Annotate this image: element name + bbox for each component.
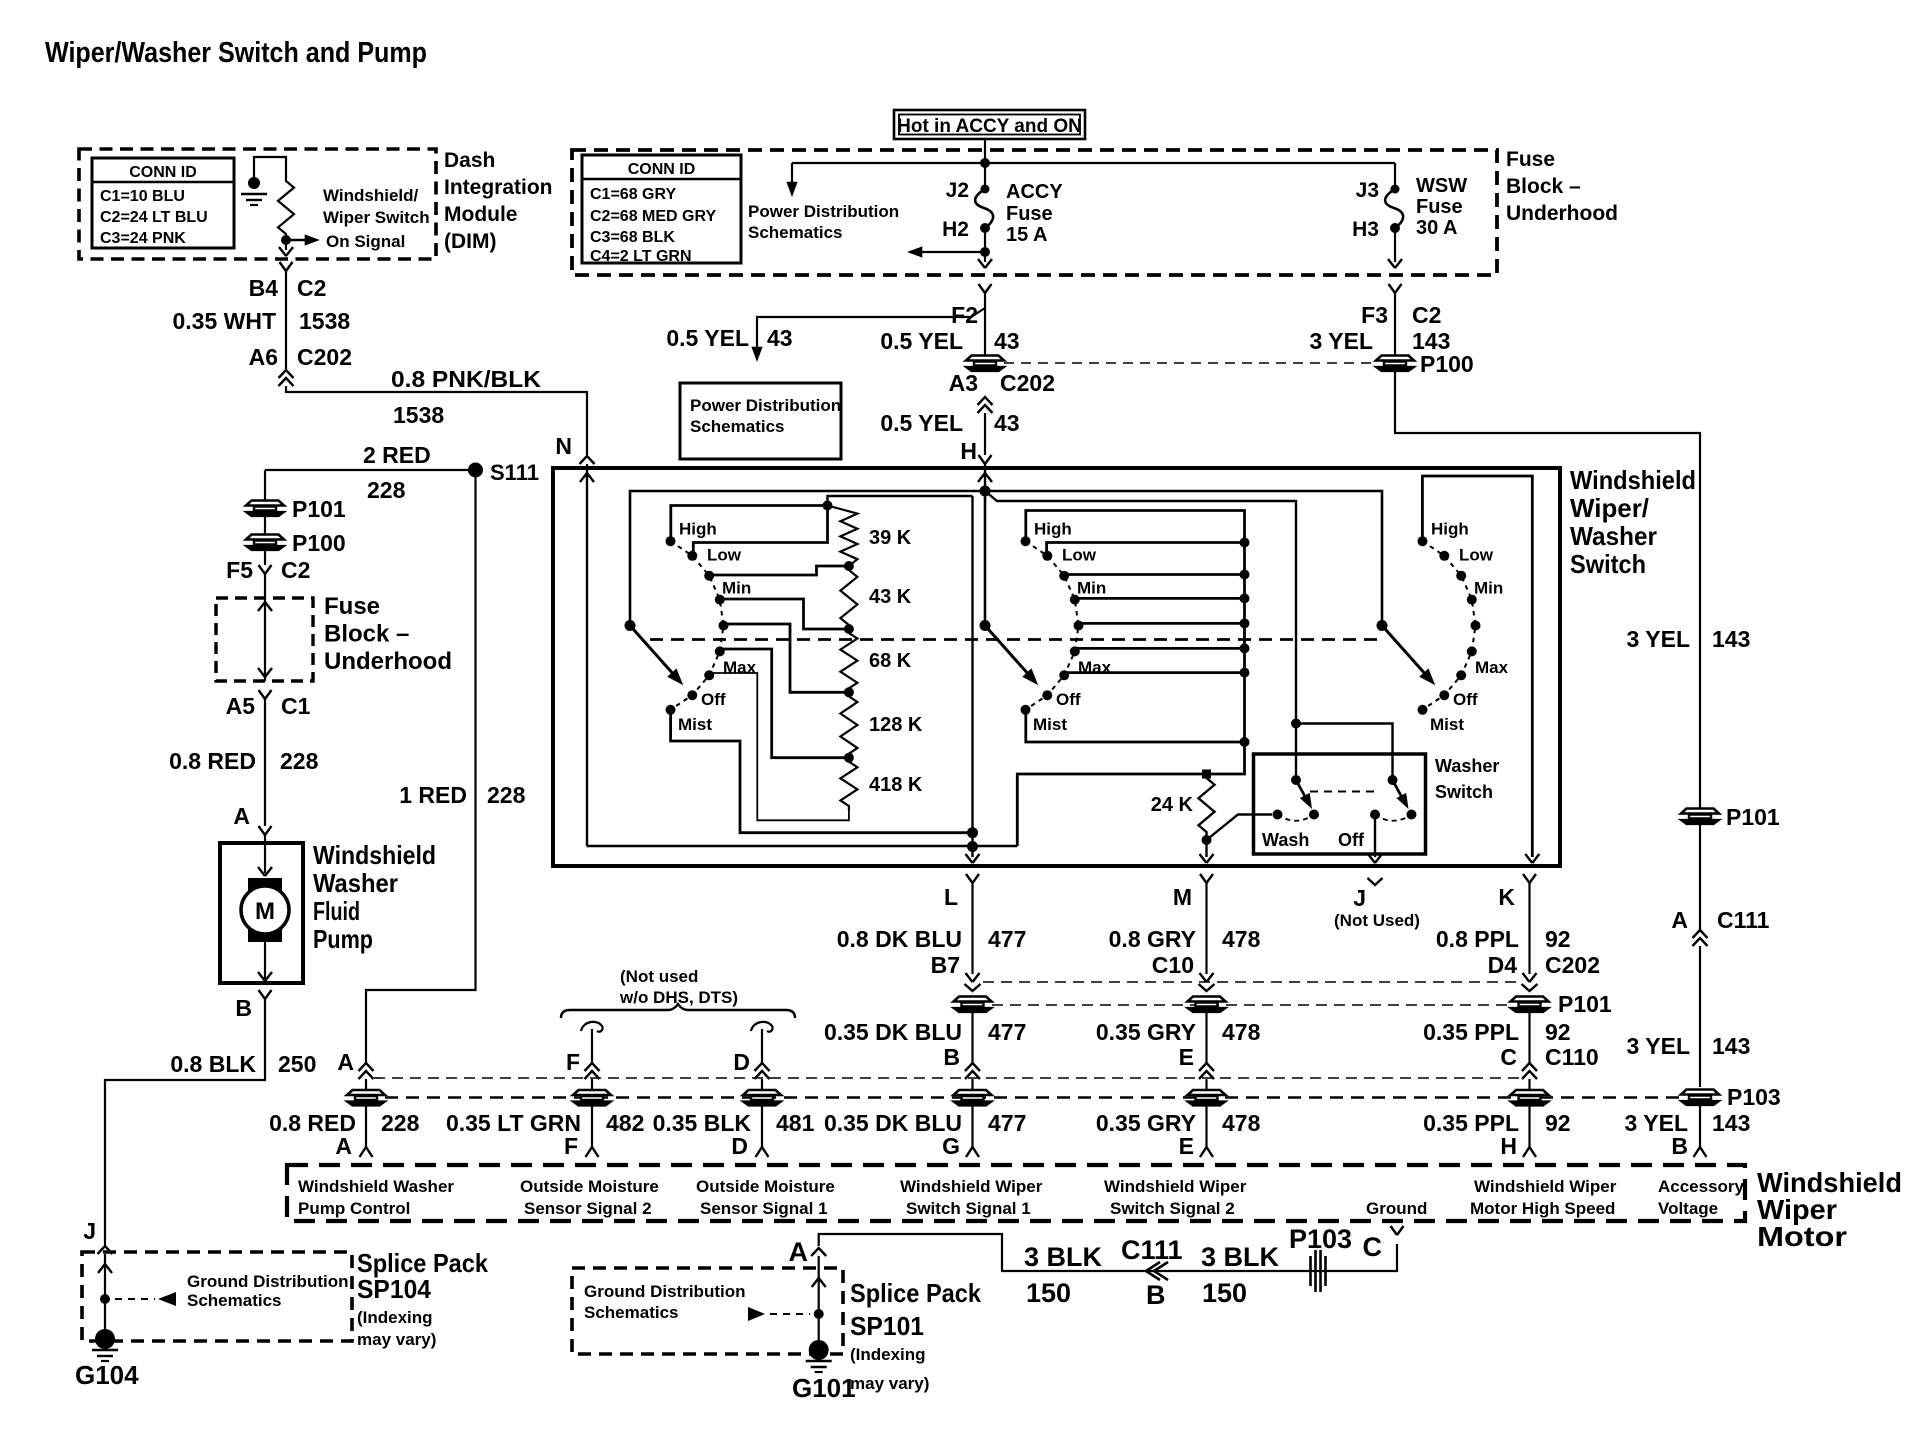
svg-text:0.35 WHT: 0.35 WHT: [172, 308, 276, 334]
connector A3 C202: [978, 397, 993, 405]
svg-text:A: A: [789, 1237, 809, 1267]
svg-text:Fuse: Fuse: [1416, 196, 1463, 218]
wire to F5: [264, 550, 266, 565]
node Mist-L junction: [967, 827, 978, 838]
svg-text:3 BLK: 3 BLK: [1201, 1242, 1280, 1272]
connector B chevrons: [965, 1063, 980, 1071]
svg-text:Ground Distribution: Ground Distribution: [584, 1282, 745, 1301]
svg-text:Off: Off: [701, 690, 726, 709]
svg-text:D: D: [731, 1133, 748, 1159]
svg-text:may vary): may vary): [357, 1330, 436, 1349]
svg-text:39 K: 39 K: [869, 527, 912, 549]
wire 0.35 WHT 1538: [285, 271, 287, 369]
svg-text:J: J: [1353, 885, 1366, 911]
svg-text:Pump: Pump: [313, 924, 373, 954]
wire hot feed bus: [984, 139, 986, 189]
svg-text:B: B: [235, 995, 252, 1021]
connector P100: [1376, 356, 1414, 372]
svg-text:477: 477: [988, 1110, 1026, 1136]
connector inline F row2: [573, 1090, 611, 1106]
svg-text:Module: Module: [444, 203, 518, 226]
svg-text:C202: C202: [1000, 370, 1055, 396]
wire H bus left to switch1 pivot: [630, 491, 985, 621]
svg-text:C1=10 BLU: C1=10 BLU: [100, 188, 185, 205]
module Splice Pack SP101 dashed box: [572, 1268, 843, 1354]
svg-text:418 K: 418 K: [869, 774, 923, 796]
connector E chevrons: [1199, 1063, 1214, 1071]
svg-text:(DIM): (DIM): [444, 230, 496, 253]
power label Hot in ACCY and ON: [894, 110, 1085, 139]
svg-text:Max: Max: [1475, 658, 1509, 677]
module Windshield Wiper/Washer Switch box: [553, 468, 1560, 866]
wire 0.5 YEL 43 branch to power distribution: [757, 308, 985, 352]
connector inline L row1: [954, 997, 992, 1013]
svg-text:F3: F3: [1361, 302, 1388, 328]
svg-text:C2: C2: [281, 557, 310, 583]
wire 0.8 RED 228: [264, 699, 266, 826]
arrow H entry: [978, 473, 992, 482]
resistor R6 24 K: [1202, 770, 1211, 779]
module Windshield Washer Fluid Pump box: [220, 843, 303, 983]
svg-text:Outside Moisture: Outside Moisture: [696, 1177, 835, 1196]
ground G104: [95, 1329, 115, 1349]
connector N at switch: [580, 456, 595, 464]
connector inline M row2: [1188, 1090, 1226, 1106]
node On Signal junction: [281, 235, 291, 245]
svg-text:3 BLK: 3 BLK: [1024, 1242, 1103, 1272]
dashed switch alignment line: [650, 638, 1378, 641]
svg-text:Windshield Washer: Windshield Washer: [298, 1177, 454, 1196]
connector C10 to C202 row: [1200, 973, 1214, 982]
svg-text:Hot in ACCY and ON: Hot in ACCY and ON: [897, 116, 1082, 137]
node splice S111: [468, 463, 483, 478]
svg-text:1538: 1538: [299, 308, 350, 334]
connector M: [1200, 874, 1213, 883]
wire J output from washer Off contact: [1374, 815, 1376, 858]
svg-text:C4=2 LT GRN: C4=2 LT GRN: [590, 248, 692, 265]
svg-text:C2: C2: [1412, 302, 1441, 328]
connector G into motor: [966, 1147, 979, 1157]
wire switch2 Low rung: [1047, 543, 1245, 555]
svg-text:481: 481: [776, 1110, 815, 1136]
wire Low contact loop: [693, 506, 827, 554]
svg-text:H2: H2: [942, 218, 969, 241]
node tap 39/43: [844, 561, 854, 571]
svg-text:B: B: [1146, 1280, 1166, 1310]
module Fuse Block Underhood dashed box: [572, 150, 1497, 275]
svg-text:0.35 PPL: 0.35 PPL: [1423, 1019, 1519, 1045]
svg-text:P100: P100: [292, 530, 346, 556]
svg-text:Wiper/Washer Switch and Pump: Wiper/Washer Switch and Pump: [45, 37, 427, 69]
svg-text:P103: P103: [1727, 1084, 1781, 1110]
connector P100 left: [264, 516, 266, 534]
DIM CONN ID table: [92, 158, 234, 248]
svg-text:Low: Low: [1062, 546, 1097, 565]
connector C ground at motor: [1391, 1226, 1404, 1235]
wire 0.8 PNK/BLK 1538 to N: [286, 386, 587, 455]
resistor wiper-switch-on pull-up: [278, 177, 294, 238]
svg-text:0.8 PNK/BLK: 0.8 PNK/BLK: [391, 366, 541, 392]
svg-text:0.8 RED: 0.8 RED: [169, 748, 256, 774]
wire switch2 Mist rung: [1026, 711, 1245, 743]
svg-text:0.35 LT GRN: 0.35 LT GRN: [446, 1110, 581, 1136]
svg-text:0.8 DK BLU: 0.8 DK BLU: [837, 926, 962, 952]
switch washer sub-box: [1254, 754, 1426, 854]
svg-text:Windshield Wiper: Windshield Wiper: [1474, 1177, 1617, 1196]
svg-text:Off: Off: [1338, 830, 1365, 850]
svg-text:228: 228: [367, 477, 406, 503]
svg-text:Low: Low: [1459, 546, 1494, 565]
motor pump M: [248, 878, 282, 896]
svg-text:Fuse: Fuse: [324, 593, 380, 620]
svg-text:G101: G101: [792, 1373, 856, 1403]
svg-text:C202: C202: [1545, 952, 1600, 978]
fuse block CONN ID table: [582, 155, 741, 263]
connector L: [966, 874, 979, 883]
svg-text:92: 92: [1545, 1019, 1571, 1045]
svg-text:0.5 YEL: 0.5 YEL: [880, 410, 963, 436]
wire switch2 frame to L bus: [587, 845, 1018, 847]
svg-text:(Not used: (Not used: [620, 967, 698, 986]
node SP104 tap: [100, 1294, 110, 1304]
svg-text:3 YEL: 3 YEL: [1627, 1033, 1691, 1059]
svg-text:150: 150: [1202, 1278, 1247, 1308]
svg-text:Off: Off: [1453, 690, 1478, 709]
connector B7 to C202 row: [966, 973, 980, 982]
wire 0.5 YEL 43 main: [984, 293, 986, 355]
svg-text:Mist: Mist: [678, 715, 712, 734]
svg-text:C1: C1: [281, 693, 311, 719]
svg-text:P103: P103: [1289, 1224, 1352, 1254]
connector D into motor: [756, 1147, 769, 1157]
washer switch left arm: [1291, 775, 1301, 785]
arrow N entry: [580, 473, 594, 482]
wire into switch box: [586, 464, 588, 468]
svg-text:C: C: [1500, 1044, 1517, 1070]
wire switch2 High to frame top: [1017, 511, 1244, 847]
svg-text:Power Distribution: Power Distribution: [690, 396, 841, 415]
wire resistor top to L line: [828, 496, 973, 506]
svg-text:150: 150: [1026, 1278, 1071, 1308]
On Signal arrow: [286, 239, 308, 241]
svg-text:J: J: [83, 1218, 96, 1244]
node L bus junction: [967, 841, 978, 852]
svg-text:Schematics: Schematics: [187, 1291, 282, 1310]
wire to C111: [1699, 824, 1701, 929]
arrow to DIM edge: [285, 240, 287, 250]
connector B4 C2 at DIM: [280, 262, 293, 271]
arrow ground distribution pointer right: [748, 1307, 765, 1321]
svg-text:Fuse: Fuse: [1506, 148, 1555, 171]
svg-text:143: 143: [1712, 1033, 1750, 1059]
svg-text:0.35 DK BLU: 0.35 DK BLU: [824, 1019, 962, 1045]
svg-text:Mist: Mist: [1033, 715, 1067, 734]
svg-text:Block –: Block –: [324, 621, 409, 648]
module Splice Pack SP104 dashed box: [82, 1252, 352, 1341]
svg-text:Dash: Dash: [444, 149, 495, 172]
connector P101 right: [1681, 809, 1719, 825]
svg-text:S111: S111: [490, 460, 539, 485]
svg-text:E: E: [1179, 1044, 1194, 1070]
svg-text:Underhood: Underhood: [324, 648, 452, 675]
svg-text:Windshield/: Windshield/: [323, 186, 419, 205]
svg-text:Windshield Wiper: Windshield Wiper: [1104, 1177, 1247, 1196]
svg-text:92: 92: [1545, 1110, 1571, 1136]
resistor R5 418 K: [840, 758, 857, 810]
resistor R2 43 K: [840, 566, 857, 629]
svg-text:Mist: Mist: [1430, 715, 1464, 734]
svg-text:L: L: [944, 884, 958, 910]
node H2 tap: [980, 247, 990, 257]
connector inline D row2: [743, 1090, 781, 1106]
connector F5 C2: [259, 565, 272, 574]
svg-text:B7: B7: [931, 952, 960, 978]
svg-text:High: High: [1034, 520, 1072, 539]
svg-text:Schematics: Schematics: [748, 223, 843, 242]
svg-text:C1=68 GRY: C1=68 GRY: [590, 186, 676, 203]
svg-text:A: A: [335, 1133, 352, 1159]
svg-text:128 K: 128 K: [869, 714, 923, 736]
svg-text:Low: Low: [707, 546, 742, 565]
svg-text:WSW: WSW: [1416, 175, 1467, 197]
svg-text:C: C: [1363, 1232, 1383, 1262]
wire 0.8 BLK 250 to G104: [105, 999, 265, 1245]
wire H to switch2 pivot: [984, 491, 987, 621]
svg-text:2 RED: 2 RED: [363, 442, 431, 468]
svg-text:A6: A6: [249, 344, 278, 370]
connector J splice pack: [98, 1246, 113, 1254]
stub F moisture sensor 2: [581, 1022, 603, 1032]
svg-text:Washer: Washer: [313, 868, 398, 898]
svg-text:Max: Max: [723, 658, 757, 677]
node H junction: [980, 486, 991, 497]
svg-text:68 K: 68 K: [869, 650, 912, 672]
svg-text:Accessory: Accessory: [1658, 1177, 1745, 1196]
connector J not used: [1368, 878, 1383, 885]
svg-text:may vary): may vary): [850, 1374, 929, 1393]
svg-text:24 K: 24 K: [1151, 794, 1194, 816]
svg-text:J3: J3: [1356, 179, 1379, 202]
svg-text:A: A: [1671, 907, 1688, 933]
connector H at switch: [979, 455, 992, 464]
svg-text:P100: P100: [1420, 351, 1474, 377]
svg-text:F: F: [564, 1133, 578, 1159]
wire L output line: [971, 496, 973, 857]
svg-text:H3: H3: [1352, 218, 1379, 241]
connector F into motor: [586, 1147, 599, 1157]
svg-text:Windshield: Windshield: [1570, 465, 1696, 495]
wire switch2 rung 5: [1079, 622, 1245, 625]
resistor R1 39 K: [828, 506, 858, 567]
svg-text:0.8 GRY: 0.8 GRY: [1109, 926, 1196, 952]
svg-text:477: 477: [988, 1019, 1026, 1045]
connector inline A row2: [347, 1090, 385, 1106]
dashed row P101 level: [374, 1077, 1520, 1079]
svg-text:F: F: [566, 1049, 580, 1075]
connector A at pump: [259, 826, 272, 835]
svg-text:B: B: [1671, 1133, 1688, 1159]
connector inline M row1: [1188, 997, 1226, 1013]
fuse ACCY: [981, 185, 990, 194]
svg-text:A3: A3: [949, 370, 978, 396]
washer switch right arm: [1388, 775, 1398, 785]
node resistor top: [823, 501, 833, 511]
svg-text:High: High: [679, 520, 717, 539]
svg-text:C3=68 BLK: C3=68 BLK: [590, 229, 675, 246]
svg-text:K: K: [1498, 884, 1515, 910]
svg-text:228: 228: [280, 748, 319, 774]
svg-text:Underhood: Underhood: [1506, 202, 1618, 225]
wire out of pump: [264, 942, 266, 979]
wire into motor box: [1699, 1105, 1701, 1147]
wire switch2 rung 3: [1065, 573, 1245, 576]
svg-text:M: M: [1173, 884, 1192, 910]
resistor R4 128 K: [840, 692, 857, 757]
svg-text:Motor High Speed: Motor High Speed: [1470, 1199, 1615, 1218]
svg-text:Schematics: Schematics: [690, 417, 785, 436]
resistor R3 68 K: [840, 629, 857, 692]
connector P101 left: [264, 470, 266, 500]
wire M output: [1205, 840, 1207, 857]
svg-text:G: G: [942, 1133, 960, 1159]
svg-text:F5: F5: [226, 557, 253, 583]
svg-text:482: 482: [606, 1110, 644, 1136]
connector P101 inline K: [1511, 997, 1549, 1013]
wire H bus right to switch3 pivot: [985, 491, 1382, 621]
wire switch2 rung 6: [1076, 647, 1244, 650]
svg-text:43: 43: [994, 410, 1020, 436]
svg-text:0.5 YEL: 0.5 YEL: [666, 325, 749, 351]
svg-text:A: A: [337, 1049, 354, 1075]
svg-text:Switch: Switch: [1570, 549, 1646, 579]
wire S111 down to pump control: [366, 470, 476, 1063]
wire below ACCY fuse: [984, 228, 986, 262]
svg-text:Washer: Washer: [1435, 756, 1499, 776]
svg-text:3 YEL: 3 YEL: [1627, 626, 1691, 652]
wire Min contact to 43K/68K tap: [719, 599, 849, 629]
svg-text:P101: P101: [1558, 991, 1612, 1017]
wire switch3 High to K output: [1422, 476, 1532, 857]
svg-text:Max: Max: [1078, 658, 1112, 677]
svg-text:SP101: SP101: [850, 1311, 924, 1341]
arrow out of fuse box: [258, 668, 272, 677]
svg-text:Sensor Signal 1: Sensor Signal 1: [700, 1199, 828, 1218]
svg-text:(Indexing: (Indexing: [850, 1345, 926, 1364]
connector P103 right: [1681, 1090, 1719, 1106]
module Dash Integration Module (DIM) dashed box: [79, 149, 436, 259]
module Windshield Wiper Motor dashed box: [287, 1165, 1745, 1221]
node bus junction: [980, 158, 990, 168]
svg-text:3 YEL: 3 YEL: [1310, 328, 1374, 354]
svg-text:Pump Control: Pump Control: [298, 1199, 410, 1218]
wire switch2 Min rung: [1074, 597, 1244, 600]
wire contact3 to 39K/43K tap: [709, 566, 849, 575]
wire 0.5 YEL 43 to H: [984, 413, 986, 455]
svg-text:Off: Off: [1056, 690, 1081, 709]
connector F2: [979, 284, 992, 293]
svg-text:478: 478: [1222, 1019, 1261, 1045]
connector H into motor: [1523, 1147, 1536, 1157]
svg-text:P101: P101: [1726, 804, 1780, 830]
wire 3 YEL 143 to accessory voltage: [1395, 371, 1700, 808]
brace over F and D stubs: [561, 1004, 795, 1018]
svg-text:D: D: [733, 1049, 750, 1075]
switch S2 wiper signal 2 rotary switch arm and contacts: [1026, 541, 1079, 710]
svg-text:Integration: Integration: [444, 176, 553, 199]
svg-text:Switch: Switch: [1435, 782, 1493, 802]
module fuse block underhood small dashed box: [216, 598, 313, 681]
wire H node: [984, 468, 986, 491]
wire H to washer switch pivots: [985, 491, 1296, 719]
svg-text:C110: C110: [1545, 1044, 1599, 1070]
connector K: [1523, 874, 1536, 883]
wire ground to resistor: [254, 157, 286, 183]
arrow into fuse box: [258, 602, 272, 611]
svg-text:C2: C2: [297, 275, 326, 301]
svg-text:Min: Min: [1077, 579, 1106, 598]
svg-text:Windshield: Windshield: [313, 840, 436, 870]
dashed row C202 level: [983, 981, 1519, 983]
svg-text:N: N: [555, 433, 572, 459]
svg-text:Ground: Ground: [1366, 1199, 1427, 1218]
svg-text:43 K: 43 K: [869, 586, 912, 608]
wire High contact to resistor top: [671, 506, 828, 542]
arrow ground distribution pointer left: [115, 1298, 155, 1300]
svg-text:CONN ID: CONN ID: [129, 164, 197, 181]
ground G101: [809, 1340, 829, 1360]
wire 3 YEL 143: [1394, 293, 1396, 355]
svg-text:Windshield Wiper: Windshield Wiper: [900, 1177, 1043, 1196]
svg-text:G104: G104: [75, 1360, 139, 1390]
arrow L out of box: [966, 854, 980, 863]
svg-text:Schematics: Schematics: [584, 1303, 679, 1322]
svg-text:CONN ID: CONN ID: [628, 161, 696, 178]
dashed washer arm tie: [1310, 791, 1378, 793]
svg-text:SP104: SP104: [357, 1274, 431, 1304]
svg-text:Min: Min: [1474, 579, 1503, 598]
arrow into F2: [978, 259, 992, 268]
svg-text:Power Distribution: Power Distribution: [748, 202, 899, 221]
node washer feed: [1291, 719, 1301, 729]
svg-text:H: H: [1500, 1133, 1517, 1159]
svg-text:B4: B4: [249, 275, 279, 301]
svg-text:250: 250: [278, 1051, 316, 1077]
svg-text:A5: A5: [226, 693, 256, 719]
wire into SP104: [104, 1258, 106, 1340]
svg-text:43: 43: [994, 328, 1020, 354]
svg-text:(Indexing: (Indexing: [357, 1308, 433, 1327]
wire N to L bus: [586, 468, 588, 846]
svg-text:Outside Moisture: Outside Moisture: [520, 1177, 659, 1196]
wire Max contact to 418K bottom: [711, 673, 849, 820]
svg-text:P101: P101: [292, 496, 346, 522]
svg-text:228: 228: [381, 1110, 420, 1136]
svg-text:Washer: Washer: [1570, 521, 1657, 551]
svg-text:E: E: [1179, 1133, 1194, 1159]
svg-text:ACCY: ACCY: [1006, 181, 1063, 203]
svg-text:43: 43: [767, 325, 793, 351]
connector A into motor: [360, 1147, 373, 1157]
svg-text:Switch Signal 1: Switch Signal 1: [906, 1199, 1031, 1218]
svg-text:Fuse: Fuse: [1006, 203, 1053, 225]
wire below WSW fuse: [1394, 228, 1396, 262]
DIM internal ground: [248, 177, 260, 189]
arrow H2 tap left: [920, 251, 985, 253]
wire into SP101: [818, 1268, 820, 1351]
svg-text:C10: C10: [1152, 952, 1194, 978]
switch S1 wiper resistor selector rotary switch arm and contacts: [671, 541, 724, 710]
switch S3 high speed rotary switch arm and contacts: [1423, 541, 1476, 710]
